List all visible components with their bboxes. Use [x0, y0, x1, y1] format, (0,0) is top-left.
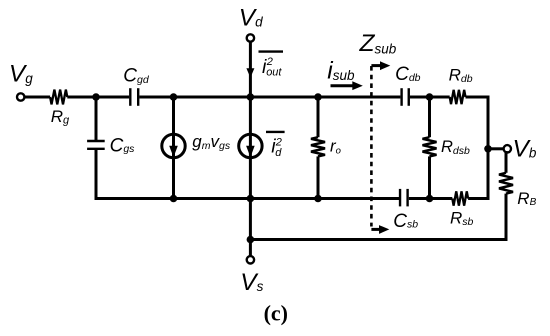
svg-text:RB: RB	[517, 189, 536, 208]
svg-text:Vg: Vg	[9, 61, 33, 88]
svg-text:Rg: Rg	[51, 107, 70, 127]
node drain (top rail at Vd)	[247, 93, 255, 101]
arrow iout (current direction)	[246, 68, 254, 78]
capacitor Cdb	[402, 88, 409, 106]
label iout^2 with overline	[259, 52, 284, 79]
arrow Zsub bottom	[371, 225, 389, 234]
svg-text:(c): (c)	[264, 301, 288, 326]
wire ro top lead	[317, 97, 320, 137]
current source U1 gmvgs	[162, 134, 185, 157]
svg-text:Vd: Vd	[239, 5, 263, 32]
svg-text:Csb: Csb	[393, 211, 418, 232]
svg-text:Rdsb: Rdsb	[441, 138, 470, 157]
resistor Rdb	[450, 90, 466, 104]
svg-text:Rdb: Rdb	[449, 66, 473, 86]
arrow isub	[331, 81, 363, 90]
svg-text:d: d	[275, 147, 282, 159]
capacitor Cgd	[130, 88, 138, 106]
resistor Rdsb	[423, 137, 437, 156]
svg-text:Vb: Vb	[513, 136, 537, 163]
dashed line Zsub	[370, 66, 373, 227]
svg-text:Zsub: Zsub	[359, 30, 397, 57]
node A (gate node)	[92, 93, 100, 101]
node bottom of id column	[247, 195, 255, 203]
arrow Zsub top	[371, 61, 390, 70]
svg-text:out: out	[266, 67, 282, 79]
wire Cdb to Rdb	[410, 96, 450, 99]
label id^2 with overline	[266, 132, 285, 159]
capacitor Csb	[400, 189, 408, 207]
wire Vs column	[249, 199, 252, 257]
wire Rdsb bottom lead	[428, 156, 431, 198]
svg-text:isub: isub	[327, 57, 355, 84]
node top of gmvgs	[170, 93, 178, 101]
wire Cgd to Cdb (top rail)	[139, 96, 400, 99]
wire RB bottom lead	[505, 194, 508, 241]
wire Vd down to top rail	[249, 42, 252, 97]
wire ro bottom lead	[317, 156, 320, 198]
svg-text:gmvgs: gmvgs	[192, 132, 231, 152]
wire RB return (bottom)	[250, 238, 507, 241]
wire Rdsb top lead	[428, 97, 431, 137]
svg-text:Cgd: Cgd	[123, 66, 150, 87]
terminal Vg	[17, 93, 24, 100]
wire node A down to Cgs	[95, 97, 98, 141]
wire Rg to node A	[67, 96, 129, 99]
svg-text:Vs: Vs	[240, 269, 263, 296]
node bottom of ro	[314, 195, 322, 203]
wire Vg to Rg	[25, 96, 50, 99]
node top of Rdsb	[426, 93, 434, 101]
wire RB top lead	[505, 151, 508, 173]
svg-text:ro: ro	[330, 137, 341, 157]
terminal Vs	[247, 256, 254, 263]
node bottom of gmvgs	[170, 195, 178, 203]
resistor Rsb	[452, 191, 468, 205]
node bottom of Rdsb	[426, 195, 434, 203]
wire top right corner / right rail / bottom right corner	[466, 97, 489, 199]
wire Cgs to bottom rail	[96, 150, 399, 199]
svg-text:Cdb: Cdb	[395, 64, 421, 85]
terminal Vb	[504, 145, 511, 152]
capacitor Cgs	[87, 141, 105, 149]
resistor ro	[311, 137, 325, 156]
terminal Vd	[247, 34, 254, 41]
wire to Vb terminal	[488, 147, 504, 150]
wire id column	[249, 97, 252, 199]
node top of ro	[314, 93, 322, 101]
current source id^2 (noise)	[239, 134, 262, 157]
svg-text:Cgs: Cgs	[110, 135, 136, 156]
svg-text:Rsb: Rsb	[450, 208, 474, 227]
wire gm column	[172, 97, 175, 199]
node Vs junction with RB return	[247, 236, 255, 244]
resistor Rg	[50, 90, 67, 105]
wire Csb to Rsb	[409, 197, 453, 200]
resistor RB	[499, 173, 513, 194]
node Vb junction on right rail	[484, 145, 492, 153]
